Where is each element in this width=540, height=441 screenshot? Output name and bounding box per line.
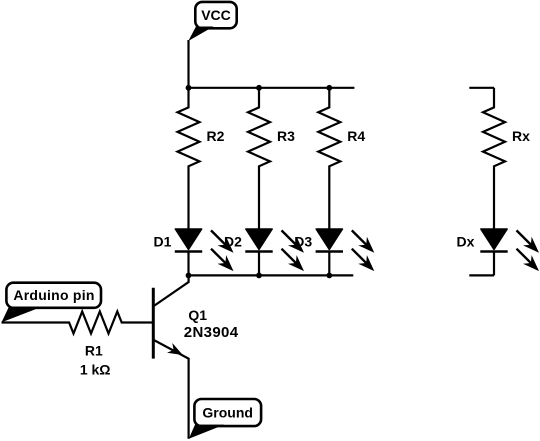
svg-text:R4: R4 (347, 128, 365, 144)
LED D3 (316, 229, 343, 252)
svg-text:VCC: VCC (201, 7, 231, 23)
top rail wire (VCC bus) (189, 87, 355, 89)
svg-text:2N3904: 2N3904 (184, 324, 239, 341)
transistor Q1 base bar (152, 288, 155, 359)
junction node bottom of D2 (256, 273, 262, 279)
svg-text:D3: D3 (294, 234, 312, 250)
bottom rail wire (to Q1 collector) (189, 274, 354, 276)
svg-text:Arduino pin: Arduino pin (13, 287, 94, 303)
Arduino pin net label callout (2, 283, 102, 323)
junction node bottom of D3 (326, 273, 332, 279)
Rx column top stub wire (469, 87, 494, 89)
wire D3 cathode to bottom rail (328, 252, 330, 276)
Ground net label callout (189, 399, 261, 439)
junction node bottom of D1 (186, 273, 192, 279)
svg-text:R2: R2 (207, 128, 225, 144)
D1 light arrow 1 (211, 230, 234, 252)
junction node top of R3 (256, 85, 262, 91)
svg-text:D1: D1 (154, 234, 172, 250)
D2 light arrow 2 (282, 249, 305, 271)
D2 light arrow 1 (282, 230, 305, 252)
svg-text:Q1: Q1 (188, 307, 207, 323)
resistor R1 with base wire (2, 312, 154, 334)
Q1 emitter lead (154, 340, 189, 439)
resistor Rx (483, 88, 505, 229)
D3 light arrow 1 (352, 230, 375, 252)
wire D2 cathode to bottom rail (258, 252, 260, 276)
Dx light arrow 2 (517, 249, 540, 271)
svg-text:D2: D2 (224, 234, 242, 250)
resistor R2 (178, 88, 200, 229)
LED D2 (245, 229, 272, 252)
svg-text:R1: R1 (85, 343, 103, 359)
svg-text:Rx: Rx (512, 128, 530, 144)
D1 light arrow 2 (211, 249, 234, 271)
LED D1 (175, 229, 202, 252)
svg-text:Dx: Dx (457, 234, 475, 250)
junction node top of R4 (326, 85, 332, 91)
D3 light arrow 2 (352, 249, 375, 271)
resistor R3 (248, 88, 270, 229)
LED Dx (480, 229, 507, 252)
svg-text:1 kΩ: 1 kΩ (80, 362, 111, 378)
svg-text:Ground: Ground (202, 405, 253, 421)
wire VCC to top rail (187, 40, 189, 88)
Q1 emitter arrowhead (167, 343, 183, 355)
Dx column bottom stub wire (469, 274, 494, 276)
Dx light arrow 1 (517, 230, 540, 252)
resistor R4 (318, 88, 340, 229)
junction node top of R2 (186, 85, 192, 91)
wire Dx cathode to bottom rail (493, 252, 495, 276)
svg-text:R3: R3 (277, 128, 295, 144)
VCC net label callout (188, 2, 236, 41)
wire D1 cathode to bottom rail (187, 252, 189, 276)
Q1 collector lead (154, 275, 189, 306)
